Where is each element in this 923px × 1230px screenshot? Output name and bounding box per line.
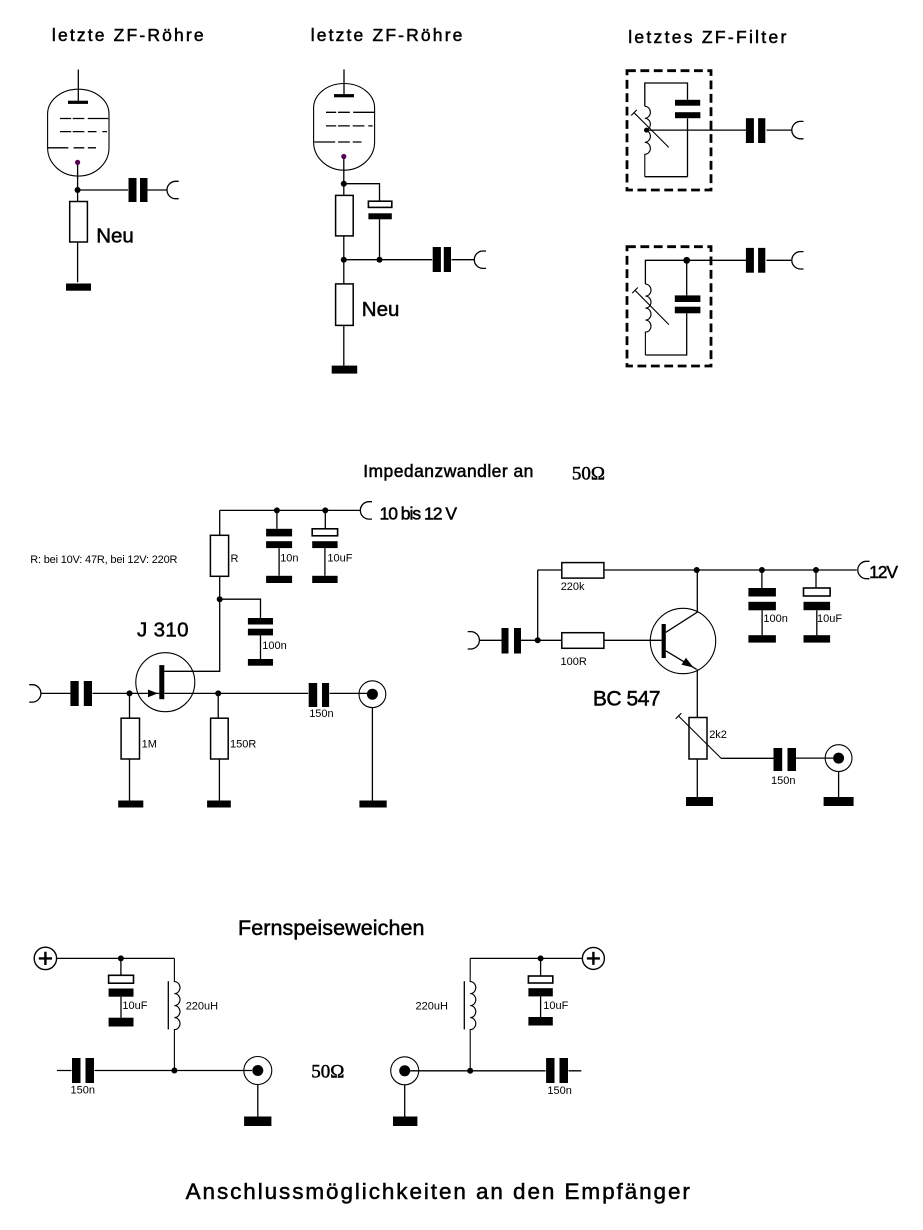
svg-text:Impedanzwandler an: Impedanzwandler an [363, 461, 533, 481]
svg-text:150n: 150n [309, 708, 333, 720]
svg-text:R: R [231, 553, 239, 565]
svg-text:10n: 10n [280, 552, 298, 564]
svg-text:100n: 100n [262, 640, 286, 652]
svg-text:10uF: 10uF [327, 552, 352, 564]
svg-text:BC 547: BC 547 [593, 688, 661, 711]
svg-text:220uH: 220uH [416, 1001, 448, 1013]
svg-text:1M: 1M [142, 739, 157, 751]
svg-text:10uF: 10uF [817, 613, 842, 625]
svg-text:10 bis 12 V: 10 bis 12 V [380, 503, 458, 523]
svg-text:100R: 100R [561, 656, 587, 668]
svg-text:150n: 150n [771, 775, 795, 787]
svg-text:Neu: Neu [362, 298, 400, 321]
svg-text:2k2: 2k2 [709, 729, 727, 741]
svg-text:220uH: 220uH [186, 1001, 218, 1013]
svg-text:150n: 150n [71, 1085, 95, 1097]
svg-text:50Ω: 50Ω [311, 1062, 344, 1083]
svg-text:letzte ZF-Röhre: letzte ZF-Röhre [52, 25, 204, 45]
svg-text:150R: 150R [230, 739, 256, 751]
svg-text:50Ω: 50Ω [572, 463, 605, 484]
svg-text:100n: 100n [763, 613, 787, 625]
svg-text:12V: 12V [869, 562, 898, 582]
svg-text:letzte ZF-Röhre: letzte ZF-Röhre [311, 25, 463, 45]
svg-text:150n: 150n [547, 1085, 571, 1097]
svg-text:Neu: Neu [96, 224, 134, 247]
svg-text:Fernspeiseweichen: Fernspeiseweichen [238, 916, 425, 940]
svg-text:R: bei 10V: 47R, bei 12V: 220R: R: bei 10V: 47R, bei 12V: 220R [30, 554, 177, 566]
svg-text:J 310: J 310 [137, 619, 189, 642]
svg-text:10uF: 10uF [543, 1000, 568, 1012]
svg-text:220k: 220k [561, 581, 585, 593]
svg-text:10uF: 10uF [122, 1000, 147, 1012]
